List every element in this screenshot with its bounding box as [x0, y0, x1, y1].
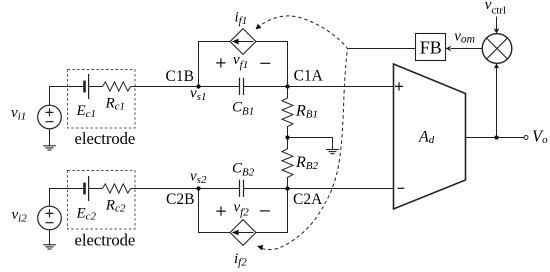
svg-text:RB1: RB1	[295, 103, 318, 121]
dashed arrow near i_f2	[257, 245, 263, 250]
svg-text:Ec1: Ec1	[76, 103, 97, 120]
wire: loop1 left and top	[199, 42, 231, 87]
resistor R_c2	[103, 184, 131, 193]
svg-text:vi2: vi2	[12, 207, 28, 225]
ground below v_i2	[43, 245, 56, 249]
wire: junction to mid ground	[288, 138, 333, 150]
source v_i1	[38, 105, 62, 129]
capacitor C_B1	[240, 78, 244, 95]
dependent source i_f1 (diamond)	[230, 29, 256, 55]
svg-text:vf2: vf2	[234, 200, 250, 219]
label - (loop1)	[260, 62, 270, 64]
source v_i2	[38, 206, 62, 230]
label + (amp)	[395, 82, 403, 90]
wire: battery2 to resistor2	[89, 188, 103, 190]
svg-text:FB: FB	[420, 38, 442, 58]
wire: v_i1 top to main line and to battery	[50, 87, 85, 106]
junction node	[285, 135, 289, 139]
svg-text:CB1: CB1	[232, 100, 254, 118]
dependent source i_f2 (diamond)	[230, 220, 256, 246]
svg-text:CB2: CB2	[232, 161, 255, 179]
wire: loop2 right	[256, 189, 288, 233]
svg-text:vs2: vs2	[190, 169, 207, 186]
wire: battery to resistor	[89, 86, 103, 88]
battery E_c2	[83, 183, 86, 195]
wire multiplier to FB with arrowhead	[451, 48, 483, 50]
node C1A	[285, 84, 289, 88]
wire: loop2 left and bottom	[199, 189, 231, 233]
svg-text:C2B: C2B	[166, 191, 194, 208]
svg-text:C1B: C1B	[166, 68, 194, 85]
wire: resistor to node C1B to capacitor	[131, 86, 240, 88]
wire: output node up to multiplier	[496, 67, 498, 138]
wire FB to dashed curve junction	[348, 48, 416, 50]
terminal V_o (open circle)	[524, 136, 528, 140]
wire: resistor2 to node C2B to capacitor2	[131, 188, 240, 190]
svg-text:Rc1: Rc1	[105, 96, 126, 113]
resistor R_B2 (vertical)	[282, 138, 293, 189]
svg-text:vf1: vf1	[233, 52, 248, 71]
resistor R_B1 (vertical)	[282, 87, 293, 138]
op-amp A_d (trapezoid)	[394, 64, 466, 209]
dashed arrow near i_f1	[256, 24, 262, 30]
wire: capacitor to C1A to amp + input	[244, 86, 394, 88]
node C2B	[196, 186, 200, 190]
FB block	[416, 34, 446, 61]
output wire	[466, 137, 525, 139]
svg-text:RB2: RB2	[295, 154, 319, 172]
wire: v_i1 bottom to ground	[49, 129, 51, 146]
svg-text:Ad: Ad	[418, 129, 435, 147]
label - (amp)	[398, 187, 405, 189]
label + (loop1)	[216, 58, 225, 67]
battery E_c1	[83, 81, 86, 93]
resistor R_c1	[103, 82, 131, 91]
node C1B	[196, 84, 200, 88]
node C2A	[285, 186, 289, 190]
label + (loop2)	[216, 206, 225, 215]
ground (mid)	[326, 150, 339, 154]
capacitor C_B2	[240, 180, 244, 197]
output node	[494, 135, 498, 139]
wire: loop1 right	[256, 42, 288, 87]
wire: v_i2 bottom to ground	[49, 230, 51, 245]
svg-text:electrode: electrode	[75, 231, 136, 250]
electrode box 2 (dashed)	[68, 171, 136, 230]
multiplier (circle with X)	[482, 34, 512, 64]
svg-text:if1: if1	[235, 10, 248, 27]
svg-text:C1A: C1A	[294, 68, 324, 85]
ground below v_i1	[43, 146, 56, 150]
arrowhead into multiplier bottom	[494, 63, 500, 68]
dashed control curve	[257, 16, 347, 250]
svg-text:Rc2: Rc2	[105, 198, 126, 215]
svg-text:vom: vom	[454, 29, 475, 46]
electrode box 1 (dashed)	[68, 70, 136, 129]
svg-text:electrode: electrode	[75, 129, 136, 148]
svg-text:C2A: C2A	[293, 191, 323, 208]
wire: capacitor2 to C2A to amp - input	[244, 188, 394, 190]
label - (loop2)	[260, 210, 270, 212]
wire: v_i2 top to bottom main line and battery	[50, 189, 85, 207]
svg-text:Ec2: Ec2	[76, 206, 97, 223]
svg-text:vi1: vi1	[11, 105, 26, 123]
svg-text:vctrl: vctrl	[485, 0, 506, 16]
wire+arrow v_ctrl into multiplier top	[496, 17, 498, 30]
svg-text:Vo: Vo	[532, 127, 548, 147]
svg-text:if2: if2	[234, 251, 247, 268]
